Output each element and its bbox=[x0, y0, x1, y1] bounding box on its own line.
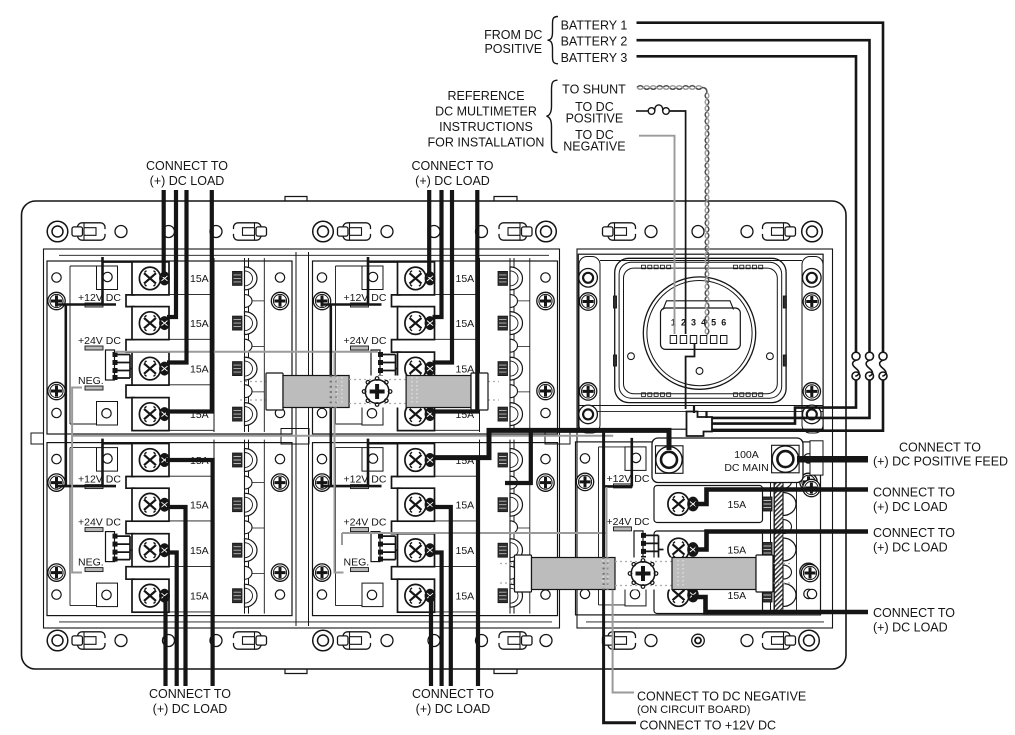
M4 right screws bbox=[537, 474, 554, 491]
M4 right mounting holes bbox=[541, 454, 550, 463]
M4 slot separators bbox=[435, 476, 480, 612]
bezel vent dots bbox=[642, 265, 646, 269]
svg-text:15A: 15A bbox=[190, 500, 209, 512]
M3 load wire 3 bbox=[167, 553, 177, 687]
left mounting plate bbox=[44, 249, 560, 628]
M2 bus stud 2 bbox=[498, 312, 523, 335]
M3 inner plate lines bbox=[69, 448, 71, 606]
M4 breaker input staircase bbox=[392, 477, 401, 580]
M3 breaker 2 (15A) bbox=[132, 488, 170, 521]
M3 load wire 2 bbox=[167, 507, 186, 686]
+12V tap wire to label bbox=[602, 430, 605, 557]
mounting hole x=481.5 bbox=[476, 226, 488, 238]
battery wire disconnect x=856 bbox=[852, 352, 860, 360]
M1 right mounting holes bbox=[275, 273, 284, 282]
M1 +12V feed wire bbox=[57, 257, 116, 305]
plate step lines bbox=[59, 254, 549, 256]
M2 breaker 4 (15A) bbox=[398, 398, 436, 431]
mounting grommet x=698 bbox=[692, 226, 704, 238]
M5 scallop bump bbox=[783, 565, 792, 579]
M3 slot separators bbox=[169, 476, 214, 612]
M5 left mounting holes bbox=[580, 454, 589, 463]
svg-text:CONNECT TO: CONNECT TO bbox=[412, 159, 494, 173]
M3 bus strip rails bbox=[244, 440, 246, 614]
svg-text:5: 5 bbox=[711, 318, 716, 328]
multimeter bezel bbox=[615, 258, 786, 402]
svg-text:(ON CIRCUIT BOARD): (ON CIRCUIT BOARD) bbox=[637, 704, 750, 716]
M1 small stud bbox=[245, 295, 253, 308]
M2 inner column line bbox=[529, 258, 531, 432]
svg-text:+12V DC: +12V DC bbox=[78, 474, 121, 486]
M1 slot separators bbox=[169, 295, 214, 431]
right plate small box bbox=[810, 441, 823, 475]
mounting hole x=481.5 bbox=[476, 635, 488, 647]
panel bottom edge tabs bbox=[285, 669, 517, 674]
M3 connector wires bbox=[117, 536, 130, 560]
mounting clip x=354 bbox=[338, 632, 373, 649]
M1 top notch + hole bbox=[97, 266, 118, 290]
svg-text:15A: 15A bbox=[190, 591, 209, 603]
svg-text:15A: 15A bbox=[728, 544, 747, 556]
M2 breaker feed stub bbox=[368, 261, 399, 263]
M2 load wire 2 bbox=[433, 190, 442, 317]
M5 scallop bump bbox=[783, 520, 792, 534]
M1 bus strip rails bbox=[244, 258, 246, 432]
M3 bus stud 1 bbox=[233, 449, 258, 472]
M2 bus stud 4 bbox=[498, 403, 523, 426]
M1 load wire 3 bbox=[167, 190, 187, 363]
M1 bus stud 1 bbox=[233, 267, 258, 290]
M2 bottom notch + hole bbox=[362, 402, 383, 426]
svg-text:15A: 15A bbox=[190, 363, 209, 375]
M4 top notch + hole bbox=[362, 448, 383, 472]
M1 inner column line bbox=[263, 258, 265, 432]
mounting clip x=619 bbox=[603, 223, 638, 240]
M3 left mounting holes bbox=[52, 454, 61, 463]
M1 breaker 4 (15A) bbox=[132, 398, 170, 431]
M3 inner column line bbox=[263, 440, 265, 614]
M2 small stud bbox=[510, 339, 518, 352]
meter terminal 3 to shunt wire bbox=[686, 344, 695, 409]
M5 module outline bbox=[576, 442, 821, 615]
M2 bus stud 3 bbox=[498, 357, 523, 380]
M3 small stud bbox=[245, 521, 253, 534]
mounting hole x=747 bbox=[741, 226, 753, 238]
M5 scallop bump bbox=[783, 474, 792, 488]
M5 breaker4 load wire bbox=[692, 597, 868, 612]
upper bus right cap bbox=[471, 373, 488, 410]
mounting hole x=121 bbox=[115, 226, 127, 238]
svg-text:TO SHUNT: TO SHUNT bbox=[562, 83, 626, 97]
M4 breaker 2 (15A) bbox=[398, 488, 436, 521]
M4 bus stud branch bbox=[505, 432, 531, 483]
100A positive feed wire bbox=[797, 456, 868, 463]
lower bus dotted hidden lines bbox=[615, 562, 672, 586]
mounting ring x=57.5 bbox=[47, 630, 68, 651]
M5 breaker3 load wire bbox=[695, 532, 868, 550]
gray wire to circuit board bbox=[342, 487, 607, 557]
svg-text:BATTERY 1: BATTERY 1 bbox=[561, 18, 628, 32]
upper bus backing bbox=[266, 376, 488, 408]
mounting clip x=515.5 bbox=[498, 223, 533, 240]
M4 breaker column divider bbox=[479, 440, 481, 614]
svg-text:(+) DC LOAD: (+) DC LOAD bbox=[873, 540, 948, 554]
M2 load wire 3 bbox=[433, 190, 453, 363]
row boundary notches bbox=[281, 429, 309, 445]
lower bus screw bbox=[628, 559, 658, 589]
M5 scallop bump bbox=[783, 452, 792, 466]
M4 small stud bbox=[510, 566, 518, 579]
svg-text:POSITIVE: POSITIVE bbox=[566, 112, 624, 126]
M1 bus stud 4 bbox=[233, 403, 258, 426]
M5 breaker2 load wire bbox=[695, 490, 868, 505]
gray negative wire M1-M3 bbox=[72, 388, 82, 573]
M4 load wire 3 bbox=[433, 553, 442, 687]
M2-M4 +12V link wire bbox=[329, 305, 332, 376]
bezel side tabs bbox=[614, 296, 617, 308]
M4 breaker 3 (15A) bbox=[398, 534, 436, 567]
upper bus left cap bbox=[266, 373, 283, 410]
upper bus right body bbox=[406, 376, 471, 408]
svg-text:15A: 15A bbox=[456, 273, 475, 285]
lower bus backing bbox=[515, 558, 774, 590]
M4 breaker1 load drop bbox=[476, 458, 480, 686]
gray negative wire M2-M4 bbox=[334, 352, 336, 376]
M2 left screws bbox=[313, 292, 330, 309]
svg-text:NEGATIVE: NEGATIVE bbox=[563, 140, 625, 154]
M1 breaker input staircase bbox=[126, 295, 135, 398]
M5 4-pin connector bbox=[634, 531, 646, 561]
svg-text:+12V DC: +12V DC bbox=[607, 473, 650, 485]
TO DC NEGATIVE wire bbox=[639, 136, 675, 334]
svg-text:+12V DC: +12V DC bbox=[344, 292, 387, 304]
M4 small stud bbox=[510, 476, 518, 489]
mounting clip x=250 bbox=[232, 632, 267, 649]
M2 breaker 2 (15A) bbox=[398, 307, 436, 340]
svg-text:CONNECT TO: CONNECT TO bbox=[873, 486, 955, 500]
M1 bus stud 2 bbox=[233, 312, 258, 335]
svg-text:+24V DC: +24V DC bbox=[78, 517, 121, 529]
M3 module outline bbox=[47, 443, 292, 616]
M5 right mounting holes bbox=[804, 454, 813, 463]
M2 small stud bbox=[510, 385, 518, 398]
upper bus dotted extensions bbox=[240, 382, 499, 401]
M3 bus stud 2 bbox=[233, 493, 258, 516]
svg-text:+24V DC: +24V DC bbox=[344, 517, 387, 529]
right mounting plate bbox=[577, 249, 833, 628]
M4 inner plate lines bbox=[335, 448, 337, 606]
M2 bus stud 1 bbox=[498, 267, 523, 290]
M2 small stud bbox=[510, 295, 518, 308]
svg-text:(+) DC LOAD: (+) DC LOAD bbox=[873, 620, 948, 634]
svg-text:15A: 15A bbox=[456, 318, 475, 330]
TO SHUNT twisted pair bbox=[637, 86, 702, 90]
meter terminal block bbox=[661, 308, 741, 349]
svg-text:DC MAIN: DC MAIN bbox=[724, 462, 768, 474]
M5 top notch + hole bbox=[625, 447, 646, 471]
M3 breaker column divider bbox=[213, 440, 215, 614]
M1 breaker 2 (15A) bbox=[132, 307, 170, 340]
mounting ring x=809 bbox=[799, 630, 820, 651]
M1 4-pin connector bbox=[106, 350, 118, 380]
gray wire to DC NEGATIVE label bbox=[613, 590, 634, 693]
battery 3 wire bbox=[637, 56, 857, 352]
meter face small holes bbox=[628, 353, 635, 360]
mounting hole x=387 bbox=[381, 635, 393, 647]
M4 +12V feed wire bbox=[323, 439, 382, 487]
svg-text:CONNECT TO: CONNECT TO bbox=[146, 159, 228, 173]
M1-M3 +12V link wire bbox=[65, 305, 68, 486]
M2 load wire 1 bbox=[427, 190, 431, 277]
M5 right screws bbox=[800, 473, 817, 490]
100A left terminal bbox=[656, 446, 684, 474]
svg-text:(+) DC LOAD: (+) DC LOAD bbox=[416, 702, 491, 716]
multimeter corner rings bbox=[579, 269, 598, 288]
svg-text:CONNECT TO DC NEGATIVE: CONNECT TO DC NEGATIVE bbox=[637, 690, 806, 704]
mounting clip x=779 bbox=[761, 223, 796, 240]
M4 module outline bbox=[313, 443, 558, 616]
M4 breaker 4 (15A) bbox=[398, 579, 436, 612]
svg-text:INSTRUCTIONS: INSTRUCTIONS bbox=[439, 120, 533, 134]
M5 inner plate lines bbox=[598, 447, 600, 605]
svg-text:100A: 100A bbox=[734, 449, 759, 461]
M1 breaker column divider bbox=[213, 258, 215, 432]
M4 4-pin connector bbox=[371, 532, 383, 562]
mounting clip x=250 bbox=[232, 223, 267, 240]
mounting clip x=779 bbox=[761, 632, 796, 649]
M4 bus stud 2 bbox=[498, 493, 523, 516]
svg-text:+12V DC: +12V DC bbox=[344, 474, 387, 486]
battery wire disconnect x=869.5 bbox=[866, 352, 874, 360]
M2 4-pin connector bbox=[371, 350, 383, 380]
gray negative bus horizontal bbox=[72, 435, 613, 437]
M2 breaker input staircase bbox=[392, 295, 401, 398]
panel left edge step bbox=[31, 433, 44, 444]
M5 bus stud 2 bbox=[763, 497, 773, 511]
M3 small stud bbox=[245, 566, 253, 579]
shunt block bbox=[687, 412, 713, 437]
M1 load wire 2 bbox=[167, 190, 176, 317]
M5 bus stud 3 bbox=[763, 543, 773, 557]
upper bus dotted hidden lines bbox=[349, 380, 406, 404]
column divider lines bbox=[295, 252, 297, 626]
mounting hole x=121 bbox=[115, 635, 127, 647]
M3 bus stud 3 bbox=[233, 539, 258, 562]
svg-text:(+) DC LOAD: (+) DC LOAD bbox=[153, 702, 228, 716]
M3 breaker input staircase bbox=[126, 477, 135, 580]
mounting ring x=57.5 bbox=[47, 221, 68, 242]
lower bus right body bbox=[672, 558, 756, 590]
100A DC MAIN breaker plate bbox=[652, 438, 803, 483]
M5 hatched bus band bbox=[775, 439, 784, 613]
M2 top notch + hole bbox=[362, 266, 383, 290]
svg-text:3: 3 bbox=[691, 318, 696, 328]
right plate screws bbox=[803, 479, 820, 496]
M5 bus stud 4 bbox=[763, 588, 773, 602]
battery 1 wire bbox=[637, 23, 884, 353]
M2 breaker 3 (15A) bbox=[398, 352, 436, 385]
multimeter brace bbox=[547, 80, 558, 152]
svg-text:NEG.: NEG. bbox=[78, 375, 104, 387]
M1 bus stud 3 bbox=[233, 357, 258, 380]
M4 bus stud 1 bbox=[498, 449, 523, 472]
M5 breaker 3 (15A) bbox=[654, 531, 763, 568]
mounting clip x=619 bbox=[603, 632, 638, 649]
mounting hole x=168.5 bbox=[163, 635, 175, 647]
M1 breaker feed stub bbox=[103, 261, 134, 263]
M2 breaker 1 (15A) bbox=[398, 262, 436, 295]
M2 bus strip rails bbox=[509, 258, 511, 432]
M5 +12V feed wire bbox=[604, 438, 633, 487]
svg-text:15A: 15A bbox=[728, 590, 747, 602]
M1 load wire 4 bbox=[166, 190, 212, 412]
M4 inner column line bbox=[529, 440, 531, 614]
M4 load wire 2 bbox=[433, 507, 451, 686]
multimeter corner screws bbox=[579, 293, 596, 310]
svg-text:CONNECT TO: CONNECT TO bbox=[149, 687, 231, 701]
svg-text:CONNECT TO +12V DC: CONNECT TO +12V DC bbox=[640, 719, 777, 733]
mounting clip x=88.5 bbox=[72, 223, 107, 240]
M2 module outline bbox=[313, 261, 558, 434]
battery 2 wire bbox=[637, 40, 870, 352]
multimeter bracket bottom band bbox=[578, 405, 823, 407]
battery wire disconnect x=883 bbox=[879, 352, 887, 360]
mounting hole x=747 bbox=[741, 635, 753, 647]
svg-text:+12V DC: +12V DC bbox=[78, 292, 121, 304]
meter face circles bbox=[643, 277, 755, 389]
M3 breaker feed stub bbox=[103, 443, 134, 445]
svg-text:CONNECT TO: CONNECT TO bbox=[412, 687, 494, 701]
M2 breaker column divider bbox=[479, 258, 481, 432]
M2 inner plate lines bbox=[335, 266, 337, 424]
M4 breaker feed stub bbox=[368, 443, 399, 445]
svg-text:CONNECT TO: CONNECT TO bbox=[873, 606, 955, 620]
M5 scallop edge line bbox=[796, 439, 798, 613]
M1 left mounting holes bbox=[52, 273, 61, 282]
svg-text:CONNECT TO: CONNECT TO bbox=[899, 441, 981, 455]
M1 connector wires bbox=[117, 355, 130, 379]
mounting grommet x=698 bbox=[692, 634, 705, 647]
M4 small stud bbox=[510, 521, 518, 534]
M4 bottom notch + hole bbox=[362, 583, 383, 607]
M4 left screws bbox=[313, 474, 330, 491]
M1 bottom notch + hole bbox=[97, 402, 118, 426]
M1 load wire 1 bbox=[162, 190, 166, 277]
M3 bus stud 4 bbox=[233, 584, 258, 607]
M2 load wire 4 bbox=[432, 190, 478, 412]
M5 connector wires bbox=[646, 535, 659, 559]
svg-text:15A: 15A bbox=[190, 273, 209, 285]
meter terminal squares bbox=[670, 336, 676, 344]
M3 small stud bbox=[245, 476, 253, 489]
M4 bus stud 3 bbox=[498, 539, 523, 562]
svg-text:15A: 15A bbox=[190, 318, 209, 330]
mounting ring x=323 bbox=[313, 221, 334, 242]
M2 slot separators bbox=[435, 295, 480, 431]
panel top edge tabs bbox=[285, 197, 517, 202]
svg-text:6: 6 bbox=[721, 318, 726, 328]
svg-text:POSITIVE: POSITIVE bbox=[484, 42, 542, 56]
M4 breaker 1 (15A) bbox=[398, 444, 436, 477]
meter terminal hood bbox=[663, 301, 734, 310]
M2 right mounting holes bbox=[541, 273, 550, 282]
multimeter bracket frame bbox=[578, 254, 823, 429]
mounting clip x=88.5 bbox=[72, 632, 107, 649]
svg-text:+24V DC: +24V DC bbox=[607, 516, 650, 528]
M4 bus stud 4 bbox=[498, 584, 523, 607]
lower bus left cap bbox=[515, 555, 532, 592]
mounting hole x=651 bbox=[645, 635, 657, 647]
svg-text:(+) DC LOAD: (+) DC LOAD bbox=[873, 500, 948, 514]
svg-text:+24V DC: +24V DC bbox=[344, 335, 387, 347]
M4 load wire 4 bbox=[429, 596, 433, 686]
svg-text:CONNECT TO: CONNECT TO bbox=[873, 526, 955, 540]
M3 +12V feed wire bbox=[57, 439, 116, 487]
lower bus dotted extensions bbox=[500, 564, 790, 584]
lower bus left body bbox=[532, 558, 616, 590]
svg-text:15A: 15A bbox=[456, 500, 475, 512]
svg-text:REFERENCE: REFERENCE bbox=[447, 89, 524, 103]
panel enclosure outline bbox=[22, 201, 847, 669]
M4 breaker1 feed to 100A main bbox=[435, 430, 669, 457]
svg-text:NEG.: NEG. bbox=[78, 557, 104, 569]
M1 small stud bbox=[245, 385, 253, 398]
M1 right screws bbox=[271, 292, 288, 309]
mounting clip x=354 bbox=[338, 223, 373, 240]
M5 breaker 4 (15A) bbox=[654, 577, 763, 614]
upper bus left body bbox=[283, 376, 349, 408]
M4 left mounting holes bbox=[317, 454, 326, 463]
svg-text:BATTERY 3: BATTERY 3 bbox=[561, 51, 628, 65]
M3 top notch + hole bbox=[97, 448, 118, 472]
M5 left screws bbox=[576, 473, 593, 490]
battery brace bbox=[548, 17, 559, 64]
M3 right mounting holes bbox=[275, 454, 284, 463]
M1 module outline bbox=[47, 261, 292, 434]
mounting ring x=323 bbox=[313, 630, 334, 651]
M3 load wire 1 bbox=[166, 460, 213, 686]
M4 connector wires bbox=[383, 536, 396, 560]
M5 bus strip rails bbox=[770, 439, 772, 613]
gray negative wire between connectors bbox=[115, 351, 378, 353]
M2 left mounting holes bbox=[317, 273, 326, 282]
TO DC POSITIVE wire + inline connector bbox=[636, 110, 648, 112]
M3 left screws bbox=[48, 474, 65, 491]
svg-text:BATTERY 2: BATTERY 2 bbox=[561, 35, 628, 49]
mounting hole x=434 bbox=[428, 635, 440, 647]
M1 left screws bbox=[48, 292, 65, 309]
M2 connector wires bbox=[383, 355, 396, 379]
svg-text:(+) DC LOAD: (+) DC LOAD bbox=[150, 174, 225, 188]
M1 inner plate lines bbox=[69, 266, 71, 424]
M3 breaker 4 (15A) bbox=[132, 579, 170, 612]
M2 +12V feed wire bbox=[323, 257, 382, 305]
mounting ring x=546 bbox=[536, 221, 557, 242]
svg-text:(+) DC LOAD: (+) DC LOAD bbox=[415, 174, 490, 188]
mounting clip x=515.5 bbox=[498, 632, 533, 649]
svg-text:FOR INSTALLATION: FOR INSTALLATION bbox=[428, 135, 545, 149]
M3 right screws bbox=[271, 474, 288, 491]
100A right terminal bbox=[772, 445, 800, 473]
upper bus screw bbox=[362, 377, 392, 407]
svg-text:15A: 15A bbox=[456, 545, 475, 557]
M5 bottom notch + hole bbox=[625, 582, 646, 606]
mounting hole x=216 bbox=[210, 635, 222, 647]
svg-text:15A: 15A bbox=[456, 591, 475, 603]
M3 breaker 3 (15A) bbox=[132, 534, 170, 567]
M1 breaker 3 (15A) bbox=[132, 352, 170, 385]
svg-text:+24V DC: +24V DC bbox=[78, 335, 121, 347]
